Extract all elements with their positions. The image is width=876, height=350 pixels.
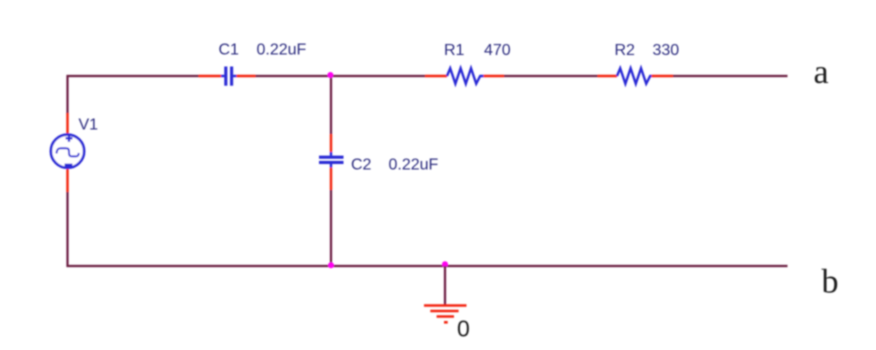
wire R1 left pin (red): [425, 75, 447, 77]
svg-text:C2: C2: [351, 157, 372, 174]
wire bottom rail ground tee to port b: [445, 265, 788, 267]
label C1 value: [219, 42, 307, 59]
svg-text:b: b: [822, 264, 839, 301]
wire R1 right pin (red): [484, 75, 505, 77]
svg-text:330: 330: [653, 42, 680, 59]
label V1: [79, 117, 99, 134]
wire top rail R1 to R2: [504, 75, 598, 77]
wire V1 top pin (red): [66, 113, 68, 134]
node junction dot ground tee: [442, 261, 448, 267]
wire top rail left segment (corner to C1): [68, 76, 199, 114]
wire C2 branch lower segment: [330, 190, 332, 266]
node junction dot bottom (C2 to rail): [328, 262, 334, 268]
node b: [822, 264, 839, 301]
label C2 value: [351, 157, 439, 174]
wire R2 right pin (red): [652, 75, 674, 77]
wire left rail bottom segment: [68, 192, 332, 266]
svg-text:a: a: [814, 54, 829, 91]
label R2 value: [615, 42, 680, 59]
node junction dot top (C2 tap): [327, 72, 333, 78]
wire R2 left pin (red): [598, 75, 618, 77]
wire top rail C1 to node, node to R1: [256, 75, 426, 77]
source V1: [51, 135, 84, 168]
resistor R2: [617, 68, 652, 83]
node a: [814, 54, 829, 91]
wire C2 top pin (red): [330, 134, 332, 152]
svg-text:0: 0: [457, 316, 470, 342]
capacitor C2: [319, 152, 344, 168]
svg-text:C1: C1: [219, 42, 240, 59]
svg-text:0.22uF: 0.22uF: [389, 157, 439, 174]
capacitor C1: [221, 67, 237, 86]
wire C2 bottom pin (red): [330, 168, 332, 191]
wire C1 left pin (red): [199, 75, 222, 77]
resistor R1: [447, 68, 484, 83]
svg-text:0.22uF: 0.22uF: [257, 42, 307, 59]
svg-text:R2: R2: [615, 42, 636, 59]
svg-text:V1: V1: [79, 117, 99, 134]
wire bottom rail node to ground tee: [331, 265, 445, 267]
wire top rail R2 to port a: [673, 75, 788, 77]
wire C2 branch upper segment: [330, 76, 332, 134]
label R1 value: [444, 42, 511, 59]
wire C1 right pin (red): [237, 75, 256, 77]
label ground 0: [457, 316, 470, 342]
svg-text:470: 470: [484, 42, 511, 59]
ground: [424, 266, 467, 322]
wire V1 bottom pin (red): [66, 169, 68, 192]
svg-text:R1: R1: [444, 42, 465, 59]
